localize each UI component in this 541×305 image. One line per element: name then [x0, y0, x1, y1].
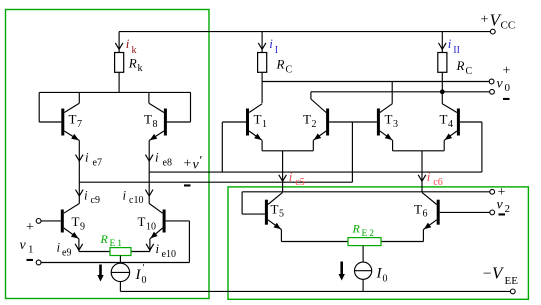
svg-text:k: k	[138, 63, 143, 74]
svg-text:I: I	[135, 267, 142, 283]
wire T2 emitter drop	[312, 140, 314, 151]
svg-text:V: V	[492, 264, 505, 283]
wire T9 emitter drop	[78, 239, 80, 252]
svg-text:i: i	[57, 240, 61, 255]
svg-text:R: R	[276, 57, 285, 72]
wire RC1 to T1 collector	[261, 72, 263, 103]
wire T8 emitter / T10 collector	[148, 141, 150, 204]
node +VCC terminal	[490, 29, 495, 34]
svg-text:6: 6	[423, 209, 428, 220]
svg-text:3: 3	[393, 119, 398, 130]
resistor RE2	[348, 238, 381, 246]
svg-text:C: C	[466, 66, 473, 77]
wire T1 base	[221, 122, 223, 172]
wire T7 collector riser	[78, 92, 80, 103]
wire T1/T2 emitter link	[262, 150, 313, 152]
svg-text:e7: e7	[93, 158, 102, 169]
svg-text:1: 1	[262, 119, 267, 130]
node v2- terminal	[490, 210, 495, 215]
svg-text:′: ′	[143, 263, 145, 274]
transistor T10	[163, 210, 166, 233]
svg-text:I: I	[275, 45, 278, 56]
svg-text:+: +	[481, 13, 489, 28]
wire T5 emitter drop	[280, 230, 282, 242]
current arrow ik	[115, 43, 123, 49]
label v1 minus	[27, 259, 34, 261]
svg-text:T: T	[414, 202, 422, 217]
wire ic5 (T1/T2 emitters to T5)	[282, 151, 284, 192]
wire +VCC rail	[119, 31, 490, 33]
svg-text:i: i	[156, 241, 160, 256]
transistor T6	[437, 200, 440, 225]
transistor T2	[326, 109, 329, 136]
svg-text:T: T	[72, 214, 80, 229]
svg-text:i: i	[126, 36, 130, 51]
svg-text:R: R	[352, 222, 361, 236]
current arrow ic10	[145, 190, 153, 196]
wire T2/T3 base riser	[351, 122, 353, 182]
wire T1 emitter drop	[261, 140, 263, 151]
wire T7 emitter / T9 collector	[78, 141, 80, 204]
wire T10 emitter drop	[149, 239, 151, 252]
wire T10 base to v1-	[166, 220, 190, 222]
svg-text:5: 5	[279, 209, 284, 220]
wire T3/T4 emitter link	[393, 150, 445, 152]
wire RE2 to I0	[362, 246, 364, 263]
svg-text:−: −	[483, 266, 491, 282]
node v1- terminal	[36, 260, 41, 265]
wire T5/T6 collector line to v2+	[242, 191, 490, 193]
svg-text:T: T	[69, 112, 77, 127]
svg-text:2: 2	[312, 119, 317, 130]
svg-text:0: 0	[505, 82, 511, 94]
node v1+ terminal	[36, 219, 41, 224]
wire -VEE rail	[120, 290, 510, 292]
svg-text:9: 9	[80, 222, 85, 233]
svg-text:T: T	[254, 112, 262, 127]
svg-text:R: R	[100, 232, 109, 246]
wire T5 base loop	[241, 192, 243, 214]
svg-text:i: i	[123, 188, 127, 203]
svg-text:10: 10	[146, 222, 156, 233]
svg-text:+: +	[26, 220, 34, 235]
transistor T9	[61, 210, 64, 233]
svg-text:R: R	[456, 58, 465, 73]
wire T4 base	[460, 121, 482, 123]
wire v0+ line	[262, 81, 489, 83]
wire T4 emitter drop	[443, 140, 445, 151]
resistor RC1	[258, 53, 267, 73]
svg-text:e8: e8	[163, 158, 172, 169]
transistor T7	[61, 109, 64, 136]
wire I0-prime to VEE	[119, 282, 121, 292]
wire I0 to VEE	[362, 279, 364, 291]
svg-text:c10: c10	[129, 195, 143, 206]
current arrow ic9	[76, 190, 84, 196]
current arrow ie8	[145, 155, 153, 161]
svg-text:T: T	[144, 112, 152, 127]
svg-text:CC: CC	[501, 20, 516, 32]
svg-text:i: i	[448, 36, 452, 51]
svg-text:v: v	[497, 198, 504, 213]
svg-text:v: v	[193, 158, 200, 173]
wire Rk to rail	[118, 72, 120, 92]
svg-text:7: 7	[77, 119, 82, 130]
wire VCC to RC1	[261, 32, 263, 53]
current source I0-prime	[111, 263, 129, 281]
wire T7 base loop	[38, 92, 40, 122]
current arrow ic5	[279, 175, 287, 181]
svg-text:k: k	[132, 45, 137, 56]
transistor T3	[377, 109, 380, 136]
svg-text:T: T	[138, 214, 146, 229]
svg-text:E 1: E 1	[110, 239, 123, 249]
svg-text:i: i	[427, 169, 431, 184]
wire T3 collector riser	[391, 82, 393, 104]
junction RC2/T4/v0-	[440, 89, 445, 94]
svg-text:+: +	[503, 64, 511, 79]
transistor T8	[164, 109, 167, 136]
svg-text:e10: e10	[162, 249, 176, 260]
wire T8 collector riser	[148, 92, 150, 103]
svg-text:8: 8	[153, 119, 158, 130]
current arrow ie9	[75, 244, 83, 250]
svg-text:T: T	[385, 112, 393, 127]
current arrow ie7	[76, 155, 84, 161]
label minus v-prime	[184, 184, 191, 186]
svg-text:i: i	[84, 188, 88, 203]
svg-text:2: 2	[505, 203, 511, 215]
current arrow ie10	[146, 244, 154, 250]
wire T2/T3 base link	[329, 121, 377, 123]
svg-text:+: +	[184, 157, 192, 172]
wire RE1 to I0-prime	[119, 256, 121, 264]
dashed-box second stage (right green frame)	[228, 187, 528, 299]
node v0- terminal	[490, 89, 495, 94]
svg-text:T: T	[440, 112, 448, 127]
wire T6 emitter drop	[422, 230, 424, 242]
wire T8 base loop	[167, 121, 191, 123]
svg-text:c5: c5	[295, 177, 304, 188]
svg-text:v: v	[497, 77, 504, 92]
svg-text:T: T	[271, 202, 279, 217]
svg-text:E 2: E 2	[362, 229, 375, 239]
resistor RE1	[110, 248, 131, 256]
node v0+ terminal	[489, 79, 494, 84]
svg-text:4: 4	[448, 119, 453, 130]
label v0 minus	[503, 98, 510, 100]
current source I0	[355, 262, 372, 279]
wire T6 base to v2-	[440, 211, 490, 213]
wire T9/T10 emitter link	[79, 251, 150, 253]
svg-text:II: II	[453, 45, 460, 56]
svg-text:1: 1	[28, 244, 34, 256]
current arrow I0-prime	[99, 265, 102, 278]
wire T2/T3 base line	[79, 181, 352, 183]
wire T5/T6 emitter link	[281, 241, 423, 243]
transistor T4	[457, 109, 460, 136]
svg-text:C: C	[286, 65, 293, 76]
wire ic6 (T3/T4 emitters to T6)	[421, 151, 423, 192]
node -VEE terminal	[510, 289, 515, 294]
svg-text:i: i	[289, 169, 293, 184]
transistor T1	[246, 109, 249, 136]
resistor RC2	[438, 53, 447, 73]
svg-text:I: I	[376, 266, 383, 282]
svg-text:T: T	[303, 112, 311, 127]
svg-text:v: v	[20, 238, 27, 253]
dashed-box first stage (left green frame)	[6, 10, 210, 299]
current arrow iII	[439, 43, 447, 49]
svg-text:i: i	[269, 36, 273, 51]
wire T2 collector riser	[310, 92, 312, 99]
svg-text:0: 0	[142, 275, 147, 286]
svg-text:c6: c6	[433, 177, 442, 188]
current arrow iI	[258, 43, 266, 49]
svg-text:c9: c9	[91, 195, 100, 206]
current arrow ic6	[418, 175, 426, 181]
label v2 minus	[499, 213, 506, 215]
wire VCC to Rk	[118, 32, 120, 53]
wire v0- line	[311, 91, 490, 93]
svg-text:i: i	[155, 150, 159, 165]
svg-text:′: ′	[200, 153, 203, 168]
svg-text:EE: EE	[505, 275, 519, 287]
wire v-prime (T1/T4 base line)	[149, 171, 482, 173]
transistor T5	[265, 200, 268, 225]
current arrow I0	[340, 262, 343, 277]
svg-text:R: R	[128, 56, 137, 71]
wire v1+ to T9 base	[41, 220, 61, 222]
resistor Rk	[115, 53, 124, 73]
wire T3 emitter drop	[392, 140, 394, 151]
wire RC2 to T4 collector	[441, 72, 443, 104]
svg-text:i: i	[85, 150, 89, 165]
node v2+ terminal	[490, 189, 495, 194]
svg-text:0: 0	[383, 274, 388, 285]
wire VCC to RC2	[441, 32, 443, 53]
svg-text:e9: e9	[62, 248, 71, 259]
wire T7/T8 collector rail	[39, 91, 190, 93]
